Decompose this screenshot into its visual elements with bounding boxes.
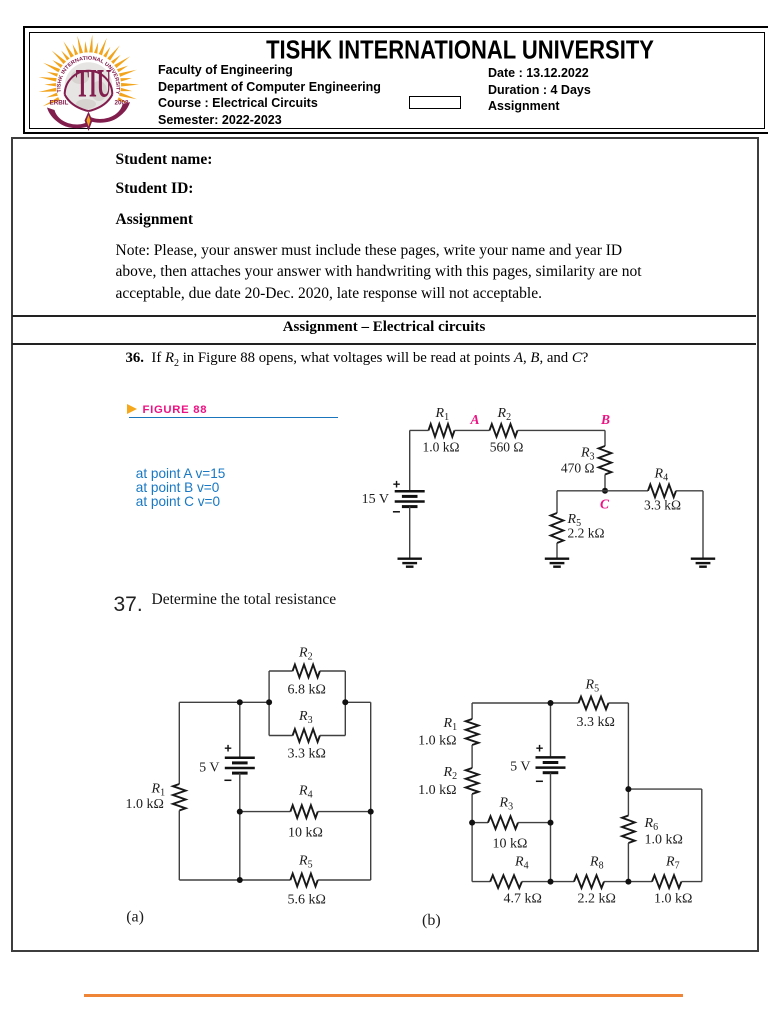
- svg-text:3.3 kΩ: 3.3 kΩ: [577, 715, 615, 730]
- svg-text:(a): (a): [126, 909, 144, 926]
- svg-text:B: B: [600, 412, 610, 427]
- svg-text:1.0 kΩ: 1.0 kΩ: [126, 797, 164, 812]
- svg-text:5.6 kΩ: 5.6 kΩ: [288, 893, 326, 908]
- svg-text:6.8 kΩ: 6.8 kΩ: [288, 683, 326, 698]
- svg-text:1.0 kΩ: 1.0 kΩ: [418, 783, 456, 798]
- svg-text:R5: R5: [298, 854, 313, 871]
- svg-text:1.0 kΩ: 1.0 kΩ: [418, 734, 456, 749]
- svg-text:−: −: [224, 772, 232, 788]
- svg-text:+: +: [393, 477, 401, 492]
- svg-text:(b): (b): [422, 912, 441, 929]
- svg-text:1.0 kΩ: 1.0 kΩ: [423, 440, 460, 455]
- svg-text:R1: R1: [443, 716, 458, 733]
- svg-text:470 Ω: 470 Ω: [561, 461, 595, 476]
- svg-text:2.2 kΩ: 2.2 kΩ: [578, 892, 616, 907]
- svg-text:R4: R4: [298, 784, 313, 801]
- svg-text:560 Ω: 560 Ω: [490, 440, 524, 455]
- svg-text:−: −: [535, 773, 543, 789]
- svg-text:15 V: 15 V: [362, 492, 389, 507]
- svg-text:10 kΩ: 10 kΩ: [288, 826, 323, 841]
- svg-text:3.3 kΩ: 3.3 kΩ: [288, 747, 326, 762]
- svg-text:R4: R4: [654, 467, 669, 484]
- svg-text:R7: R7: [665, 854, 680, 871]
- svg-text:+: +: [536, 741, 544, 756]
- svg-text:5 V: 5 V: [510, 760, 530, 775]
- svg-text:R8: R8: [589, 854, 604, 871]
- svg-text:R2: R2: [497, 406, 512, 423]
- svg-text:−: −: [392, 504, 400, 520]
- svg-text:1.0 kΩ: 1.0 kΩ: [645, 833, 683, 848]
- svg-text:10 kΩ: 10 kΩ: [493, 837, 528, 852]
- svg-text:R4: R4: [514, 854, 529, 871]
- svg-text:4.7 kΩ: 4.7 kΩ: [504, 892, 542, 907]
- svg-text:C: C: [600, 497, 610, 512]
- svg-text:R5: R5: [585, 677, 600, 694]
- svg-text:R1: R1: [435, 406, 450, 423]
- svg-text:1.0 kΩ: 1.0 kΩ: [654, 892, 692, 907]
- svg-text:R6: R6: [644, 816, 659, 833]
- svg-text:5 V: 5 V: [199, 761, 219, 776]
- svg-text:R3: R3: [298, 709, 313, 726]
- svg-text:3.3 kΩ: 3.3 kΩ: [644, 498, 681, 513]
- svg-text:+: +: [224, 741, 232, 756]
- svg-text:R3: R3: [499, 796, 514, 813]
- svg-text:2.2 kΩ: 2.2 kΩ: [568, 526, 605, 541]
- svg-text:A: A: [470, 412, 480, 427]
- svg-text:R2: R2: [298, 646, 313, 663]
- svg-text:R2: R2: [443, 765, 458, 782]
